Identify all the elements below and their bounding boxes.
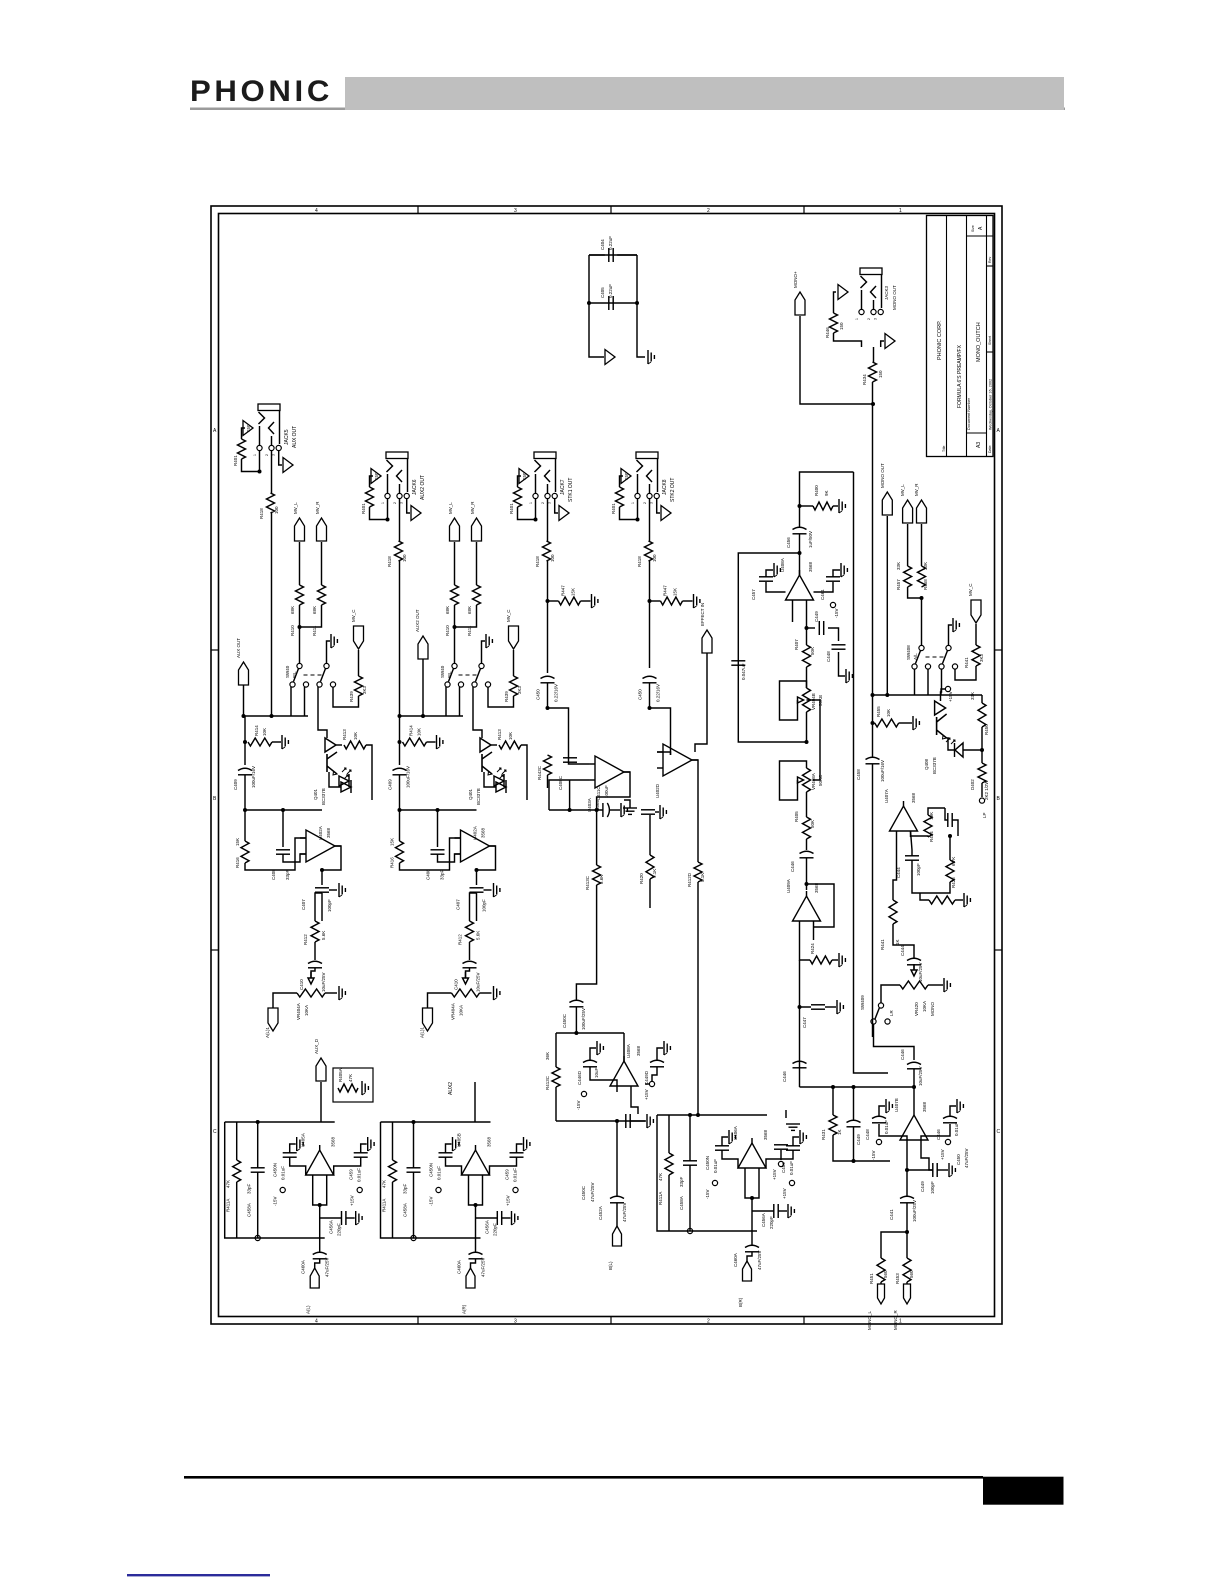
- svg-text:+15V: +15V: [644, 1089, 649, 1100]
- svg-text:C450N: C450N: [705, 1156, 710, 1170]
- net B(R) plug outC: [743, 1261, 752, 1281]
- capacitor C409 ch2: [393, 768, 407, 770]
- capacitor mix left: [774, 1144, 788, 1146]
- net B(L) plug: [613, 1226, 622, 1246]
- svg-text:0.01uF: 0.01uF: [513, 1168, 518, 1182]
- wire jack3strip down: [547, 561, 549, 673]
- wire split left: [881, 1232, 907, 1258]
- svg-text:560: 560: [909, 1270, 914, 1278]
- wire r434b top: [911, 836, 929, 837]
- svg-text:R412D: R412D: [687, 872, 692, 887]
- capacitor C407 ch1 100pF: [315, 887, 329, 889]
- wire switch drops: [445, 687, 447, 716]
- junction: [243, 740, 247, 744]
- wire q emitter to led: [947, 738, 955, 750]
- wire jack3 sleeve arrow: [881, 341, 884, 347]
- svg-text:Date:: Date:: [988, 445, 992, 453]
- wire to plugs: [880, 1282, 882, 1284]
- svg-text:-15V: -15V: [834, 608, 839, 618]
- junction outC out: [750, 1196, 754, 1200]
- svg-text:C461: C461: [820, 589, 825, 600]
- svg-text:100pF: 100pF: [930, 1181, 935, 1194]
- junction: [615, 1119, 619, 1123]
- svg-text:4: 4: [315, 208, 318, 214]
- svg-text:C449: C449: [920, 1181, 925, 1192]
- svg-text:5.1K: 5.1K: [700, 873, 705, 882]
- capacitor C411C: [602, 803, 604, 817]
- junction outR out: [474, 1203, 478, 1207]
- net AUX2 OUT arrow ch2: [418, 636, 428, 659]
- svg-text:JACK6: JACK6: [412, 479, 418, 495]
- junction outR: [412, 1120, 416, 1124]
- net MV_L arrow: [450, 518, 460, 541]
- svg-text:R412: R412: [458, 934, 463, 945]
- svg-text:1K: 1K: [837, 1129, 842, 1135]
- svg-text:C449: C449: [814, 611, 819, 622]
- capacitor C450 outL + gnd: [283, 1152, 297, 1154]
- resistor R411 outC 47K: [665, 1153, 673, 1175]
- capacitor C461 + ground: [826, 576, 840, 578]
- wire fx down to mix: [799, 1007, 801, 1087]
- pin -15V outL: [280, 1187, 285, 1192]
- net AUX OUT arrow ch1: [239, 662, 249, 685]
- svg-text:0.01uF: 0.01uF: [884, 1120, 889, 1134]
- svg-text:Q408: Q408: [924, 758, 929, 770]
- svg-text:R414: R414: [254, 725, 259, 736]
- junction: [546, 706, 550, 710]
- wire mvl down: [907, 524, 909, 566]
- resistor R411 outR 47K: [389, 1160, 397, 1182]
- capacitor C460 outL: [313, 1252, 327, 1254]
- wire ch2 to block2: [474, 1082, 476, 1122]
- wire q collector: [366, 745, 372, 800]
- svg-text:R401: R401: [233, 455, 238, 466]
- junction: [871, 693, 875, 697]
- net MONO_L probe: [878, 1284, 885, 1304]
- wire ch4 opamp in: [657, 752, 671, 755]
- resistor R447 ch3 15K: [559, 597, 581, 605]
- junction: [546, 599, 550, 603]
- ground C446r: [956, 1099, 958, 1113]
- capacitor C447 fx: [731, 660, 745, 662]
- junction bus a: [242, 714, 246, 718]
- wire jack2 down: [399, 561, 401, 716]
- zone ticks bottom: [417, 1317, 419, 1325]
- switch PAD dpdt: [452, 663, 457, 668]
- arrow JACK8 STK2 OUT tip: [621, 469, 631, 484]
- junction pot mid: [805, 740, 809, 744]
- svg-text:PHONIC CORP.: PHONIC CORP.: [937, 320, 943, 360]
- svg-text:R446: R446: [825, 327, 830, 338]
- junction: [920, 596, 924, 600]
- svg-text:MONO OUT: MONO OUT: [892, 285, 897, 310]
- svg-text:R447: R447: [561, 585, 566, 596]
- svg-text:3: 3: [514, 1319, 517, 1325]
- svg-text:C450C: C450C: [562, 1013, 567, 1028]
- led D402 mono: [954, 743, 956, 757]
- wire sw down: [874, 1024, 915, 1060]
- wire to switch: [454, 627, 456, 664]
- wire MV_R down: [321, 542, 323, 585]
- junction: [243, 808, 247, 812]
- svg-text:R405A: R405A: [338, 1068, 343, 1082]
- svg-text:100: 100: [274, 506, 279, 514]
- ground r424: [832, 959, 838, 961]
- junction JACK8 STK2 OUT: [636, 518, 640, 522]
- pin -15V outC: [712, 1180, 717, 1185]
- junction fx in: [798, 551, 802, 555]
- svg-text:JACK3: JACK3: [884, 285, 889, 300]
- svg-text:R413: R413: [342, 729, 347, 740]
- svg-text:MV_R: MV_R: [470, 501, 475, 514]
- svg-text:B: B: [213, 796, 217, 802]
- wire c449 down: [853, 1127, 855, 1161]
- svg-text:2: 2: [393, 502, 397, 504]
- svg-text:MV_R: MV_R: [914, 483, 919, 496]
- FX box right edge: [854, 472, 889, 1073]
- wire mono out down: [886, 516, 888, 695]
- wire ch3 chain: [596, 810, 598, 865]
- wire cap to opamp: [438, 854, 461, 862]
- svg-text:R441: R441: [964, 657, 969, 668]
- svg-text:MV_C: MV_C: [506, 609, 511, 622]
- junction: [831, 1085, 835, 1089]
- box R405A: [333, 1068, 373, 1102]
- potentiometer VR420 10KA MONO: [900, 981, 928, 989]
- svg-text:0.01uF: 0.01uF: [437, 1166, 442, 1180]
- svg-text:R416: R416: [235, 857, 240, 868]
- svg-text:R451: R451: [869, 1273, 874, 1284]
- ground r455: [912, 716, 914, 730]
- resistor R412 ch2 5.6K: [466, 921, 474, 942]
- capacitor C410 ch2: [469, 942, 471, 960]
- resistor 68K left: [451, 585, 459, 605]
- resistor JACK5 AUX OUT input 150: [242, 428, 246, 439]
- svg-text:150: 150: [374, 472, 379, 480]
- zone ticks left: [211, 649, 219, 651]
- capacitor C444 right: [905, 855, 919, 857]
- wire r441b down: [893, 924, 914, 958]
- svg-text:33pF: 33pF: [247, 1183, 252, 1194]
- ground sw mono: [952, 618, 954, 632]
- arrow JACK7 STK1 OUT sleeve: [559, 506, 569, 521]
- wire c458 down: [872, 764, 874, 1037]
- svg-text:AUX2 OUT: AUX2 OUT: [420, 475, 426, 500]
- svg-text:5.6K: 5.6K: [476, 931, 481, 940]
- op-amp U405 outL: [306, 1150, 334, 1175]
- svg-text:MONO_OUTCH: MONO_OUTCH: [976, 322, 982, 362]
- net MV_L arrow: [295, 518, 305, 541]
- svg-text:3568: 3568: [763, 1129, 768, 1140]
- svg-text:BC337B: BC337B: [476, 788, 481, 805]
- pin -15V: [830, 602, 835, 607]
- resistor R450 mono 33K: [978, 703, 986, 727]
- svg-text:BC337B: BC337B: [321, 788, 326, 805]
- wire ch3 loop a: [549, 780, 589, 810]
- svg-text:1: 1: [529, 502, 533, 504]
- capacitor C408C: [563, 757, 577, 759]
- wire AUX OUT down: [243, 685, 245, 716]
- svg-text:10uF/25V: 10uF/25V: [476, 972, 481, 992]
- wire JACK5 AUX OUT bottom: [242, 451, 260, 472]
- svg-text:33pF: 33pF: [679, 1176, 684, 1187]
- svg-text:A: A: [213, 428, 217, 434]
- wire c444 to r433: [912, 860, 920, 893]
- svg-text:Rev: Rev: [988, 257, 992, 263]
- ground r430: [963, 893, 965, 907]
- arrow JACK6 AUX2 OUT sleeve: [411, 506, 421, 521]
- wire bus down: [399, 716, 401, 765]
- pin +15V u407b: [945, 1139, 950, 1144]
- junction: [587, 301, 591, 305]
- junction outL out: [318, 1203, 322, 1207]
- capacitor C450 ch3 0.22/16V: [541, 676, 555, 678]
- wire down to R412: [321, 893, 323, 921]
- op-amp U402 ch1: [306, 830, 335, 862]
- op-amp U403A ch3: [595, 756, 624, 788]
- wire to split: [906, 1203, 908, 1232]
- svg-text:SW408: SW408: [906, 645, 911, 660]
- resistor R413E feedback: [552, 1067, 560, 1087]
- net AUX_D arrow: [316, 1058, 326, 1081]
- svg-text:C460A: C460A: [457, 1260, 462, 1274]
- resistor R434b 10K: [924, 815, 932, 837]
- wire cap down: [244, 775, 246, 810]
- svg-text:MV_C: MV_C: [968, 583, 973, 596]
- wire led to r442: [963, 749, 982, 751]
- resistor R405 50K fx: [803, 817, 811, 839]
- svg-text:2: 2: [707, 208, 710, 214]
- svg-text:R411A: R411A: [382, 1199, 387, 1212]
- junction: [574, 1031, 578, 1035]
- net MV_R arrow right: [917, 500, 927, 523]
- svg-text:R411A: R411A: [226, 1199, 231, 1212]
- net MV_R arrow: [317, 518, 327, 541]
- capacitor C450C 100uF/25V: [569, 1000, 583, 1002]
- op-amp U408A: [786, 575, 814, 600]
- ground: [647, 350, 649, 364]
- capacitor C450 outC + gnd: [715, 1145, 729, 1147]
- svg-text:C446: C446: [936, 1129, 941, 1140]
- ground ch2 c407: [493, 883, 495, 897]
- svg-text:C: C: [213, 1129, 217, 1135]
- rail ch3 out: [549, 809, 603, 811]
- transistor Q401 ch1 BC337B: [325, 738, 336, 752]
- wire q collector: [521, 745, 527, 800]
- resistor R443C: [544, 755, 552, 775]
- junction: [568, 808, 572, 812]
- wire c446d to input: [590, 1067, 617, 1086]
- svg-text:VR420: VR420: [914, 1002, 919, 1016]
- wire jack3 gnd: [834, 333, 862, 347]
- ground C446D: [596, 1041, 598, 1055]
- svg-text:C457: C457: [751, 589, 756, 600]
- resistor 68K right: [473, 585, 481, 605]
- svg-text:A(R): A(R): [462, 1304, 467, 1314]
- op-amp U402D ch4: [663, 744, 692, 776]
- wire mvr down: [921, 524, 923, 566]
- wire r450 to r442: [981, 727, 983, 763]
- wire mono vertical: [872, 382, 874, 757]
- FX box right: [800, 472, 854, 506]
- wire arrC loop: [333, 687, 359, 707]
- capacitor C405: [608, 296, 610, 310]
- svg-text:100uF/25V: 100uF/25V: [581, 1008, 586, 1030]
- svg-text:1: 1: [381, 502, 385, 504]
- svg-text:R407: R407: [794, 639, 799, 650]
- svg-text:3: 3: [874, 318, 878, 320]
- capacitor C458 outR 33pF: [407, 1167, 421, 1169]
- svg-text:3: 3: [514, 208, 517, 214]
- op-amp U407A: [890, 806, 918, 831]
- wire resistor join: [300, 605, 322, 627]
- op-amp U408B: [610, 1061, 638, 1086]
- svg-text:10K: 10K: [886, 709, 891, 717]
- capacitor C449D + gnd: [650, 1060, 664, 1062]
- header gray bar: [345, 77, 1064, 110]
- junction u408 out: [805, 626, 809, 630]
- svg-text:2: 2: [265, 454, 269, 456]
- wire ch4 chain low: [697, 882, 699, 1115]
- resistor R405A 47K: [338, 1084, 358, 1092]
- op-amp U409A: [793, 896, 821, 921]
- capacitor C446r + gnd above: [943, 1116, 957, 1118]
- svg-text:R412: R412: [303, 934, 308, 945]
- svg-text:R418: R418: [535, 556, 540, 567]
- arrow JACK6 AUX2 OUT tip: [371, 469, 381, 484]
- pin +15V outC: [789, 1180, 794, 1185]
- svg-text:C450N: C450N: [273, 1163, 278, 1177]
- junction: [635, 301, 639, 305]
- op-amp pins outC: [745, 1174, 759, 1198]
- capacitor C459 outR + gnd: [510, 1152, 524, 1154]
- svg-text:3568: 3568: [808, 561, 813, 572]
- wire AUX_D down: [320, 1082, 322, 1122]
- wire pot mono gnd: [928, 984, 943, 986]
- box U408B bottom rail: [556, 1120, 645, 1122]
- wire u407b left pin down: [906, 1146, 908, 1196]
- wire MONO+ down: [800, 316, 873, 404]
- capacitor C449b: [932, 1163, 934, 1177]
- box U408B left edge: [555, 1033, 557, 1067]
- junction: [475, 868, 479, 872]
- wire r420 down: [649, 879, 651, 908]
- resistor R412D 5.1K: [694, 862, 702, 882]
- connector JACK8 STK2 OUT: [636, 452, 658, 459]
- svg-text:AUX OUT: AUX OUT: [292, 426, 298, 448]
- wire JACK8 STK2 OUT bottom: [620, 499, 638, 520]
- resistor R411 ch1 10K: [344, 741, 366, 749]
- op-amp U405 outC: [738, 1143, 766, 1168]
- svg-text:IFL: IFL: [292, 671, 297, 678]
- svg-text:+15V: +15V: [506, 1195, 511, 1206]
- net MONO+ arrow: [795, 292, 805, 315]
- svg-text:10KA: 10KA: [459, 1005, 464, 1016]
- resistor R424 fx: [810, 956, 832, 964]
- wire cap block top: [589, 254, 637, 256]
- junction: [320, 868, 324, 872]
- svg-text:EFFECT IN: EFFECT IN: [700, 603, 705, 626]
- junction: [648, 706, 652, 710]
- capacitor C459 outL + gnd: [354, 1152, 368, 1154]
- svg-text:47K: 47K: [226, 1180, 231, 1188]
- capacitor bottom capv + gnd: [625, 1114, 627, 1128]
- wire mono bus drops: [914, 670, 916, 696]
- wire led: [484, 772, 496, 787]
- svg-text:33K: 33K: [970, 692, 975, 700]
- wire mono bus right down: [981, 695, 983, 703]
- wire to switch: [299, 627, 301, 664]
- svg-text:C405: C405: [600, 287, 605, 298]
- svg-text:33K: 33K: [896, 562, 901, 570]
- svg-text:U407B: U407B: [894, 1098, 899, 1112]
- svg-text:9K: 9K: [824, 490, 829, 496]
- wire switch gnd: [327, 641, 331, 664]
- capacitor C459 outC + gnd: [786, 1145, 800, 1147]
- svg-text:C459: C459: [781, 1162, 786, 1173]
- svg-text:1: 1: [253, 454, 257, 456]
- wire JACK6 AUX2 OUT bottom: [370, 499, 388, 520]
- svg-text:15K: 15K: [673, 588, 678, 596]
- wire r407 down: [806, 667, 808, 688]
- wire outR left: [381, 1122, 481, 1238]
- svg-text:47K: 47K: [348, 1074, 353, 1082]
- svg-text:68K: 68K: [312, 606, 317, 614]
- svg-text:220pF: 220pF: [493, 1223, 498, 1236]
- svg-text:C459: C459: [505, 1169, 510, 1180]
- svg-text:C448: C448: [826, 651, 831, 662]
- svg-text:100pF: 100pF: [327, 899, 332, 912]
- resistor R447 ch4 15K: [661, 597, 683, 605]
- wire bl chain 2: [616, 1203, 618, 1226]
- svg-text:R424: R424: [810, 943, 815, 954]
- svg-text:JACK7: JACK7: [560, 479, 566, 495]
- svg-text:C456A: C456A: [329, 1220, 334, 1234]
- svg-text:-15V: -15V: [705, 1189, 710, 1199]
- net A(x)1 arrow ch2: [423, 1008, 433, 1031]
- transistor Q408 mono: [935, 701, 946, 715]
- svg-text:VR408A: VR408A: [811, 773, 816, 790]
- svg-text:STK2 OUT: STK2 OUT: [670, 478, 676, 502]
- op-amp U407B: [900, 1115, 928, 1140]
- wire c407 gnd: [484, 889, 492, 891]
- ground ch1 pot: [338, 986, 340, 1000]
- title block column lines: [946, 216, 948, 457]
- resistor R455 10K mono: [875, 719, 899, 727]
- svg-text:100uF: 100uF: [604, 785, 609, 798]
- svg-text:C456A: C456A: [761, 1213, 766, 1227]
- svg-text:C408C: C408C: [558, 775, 563, 790]
- junction: [871, 721, 875, 725]
- svg-text:100uF/25V: 100uF/25V: [912, 1200, 917, 1222]
- svg-text:A(L)1: A(L)1: [420, 1026, 425, 1038]
- svg-text:R455: R455: [876, 706, 881, 717]
- svg-text:Q401: Q401: [468, 788, 473, 800]
- resistor R420 ch4 9.1K: [649, 815, 651, 855]
- svg-text:68K: 68K: [445, 606, 450, 614]
- wire u407b fb jog: [921, 1146, 933, 1170]
- capacitor C408 ch2: [437, 810, 439, 847]
- wire opamp minus: [400, 838, 461, 870]
- wire JACK6 AUX2 OUT ring down: [399, 499, 401, 542]
- svg-text:MONO_R: MONO_R: [893, 1309, 898, 1330]
- svg-text:0.22/16V: 0.22/16V: [656, 684, 661, 702]
- pin +15V outR: [513, 1187, 518, 1192]
- svg-text:VR404A: VR404A: [451, 1003, 456, 1020]
- resistor R426 6.7K: [946, 860, 954, 882]
- svg-text:MV_L: MV_L: [293, 502, 298, 514]
- svg-text:C410: C410: [299, 979, 304, 990]
